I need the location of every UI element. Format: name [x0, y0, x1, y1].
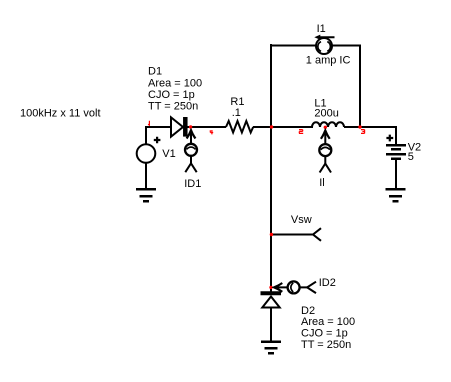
resistor R1: [226, 121, 253, 133]
junction dot at Vsw: [270, 233, 273, 236]
junction dot at L1 / Il probe: [324, 126, 327, 129]
svg-text:D2: D2: [301, 305, 315, 317]
svg-text:TT = 250n: TT = 250n: [301, 339, 351, 351]
svg-text:CJO = 1p: CJO = 1p: [301, 327, 348, 339]
ground (D2): [261, 342, 281, 354]
wire top loop left vertical (node 2 column down to D2): [270, 44, 272, 293]
wire R1 to L1 through node 2 junction: [253, 126, 313, 128]
svg-text:Area = 100: Area = 100: [148, 77, 202, 89]
node 1 (red node number): [148, 121, 149, 126]
node 4 (red node number): [210, 130, 213, 134]
svg-text:Vsw: Vsw: [291, 214, 312, 226]
wire V2 battery bottom to ground: [395, 158, 397, 190]
junction dot node 3: [358, 125, 361, 128]
svg-text:.1: .1: [232, 107, 241, 119]
svg-text:TT = 250n: TT = 250n: [148, 100, 198, 112]
inductor L1: [312, 122, 344, 127]
current probe ID1: [185, 128, 197, 173]
voltage source V1: [137, 137, 161, 163]
svg-text:Area = 100: Area = 100: [301, 316, 355, 328]
svg-text:D1: D1: [148, 66, 162, 78]
wire V1 top to diode D1 anode: [146, 127, 171, 144]
wire Vsw stub: [271, 234, 314, 236]
junction dot at D1 cathode: [189, 125, 192, 128]
wire top loop horizontal through I1: [270, 45, 360, 47]
wire V1 bottom to ground: [145, 162, 147, 190]
svg-text:Il: Il: [319, 177, 325, 189]
current source I1: [314, 35, 334, 54]
svg-text:100kHz x 11 volt: 100kHz x 11 volt: [20, 108, 101, 120]
svg-text:ID1: ID1: [184, 178, 201, 190]
ground (V1): [136, 189, 156, 201]
wire L1 to V2 corner: [344, 127, 396, 145]
diode D2: [261, 293, 282, 307]
node 3 (red node number): [361, 130, 365, 134]
svg-text:1 amp IC: 1 amp IC: [306, 55, 351, 67]
diode D1: [171, 117, 185, 137]
svg-text:200u: 200u: [314, 107, 338, 119]
svg-text:ID2: ID2: [319, 277, 336, 289]
svg-text:5: 5: [408, 151, 414, 163]
current probe Il: [319, 128, 331, 173]
svg-text:CJO = 1p: CJO = 1p: [148, 89, 195, 101]
junction dot at ID2: [269, 286, 272, 289]
wire top loop right vertical to node 3: [359, 45, 361, 128]
wire D2 anode to ground: [270, 307, 272, 342]
junction dot node 2: [270, 125, 273, 128]
tie Vsw prongs: [313, 228, 321, 241]
battery V2: [386, 135, 406, 159]
svg-text:I1: I1: [317, 23, 326, 35]
svg-text:V1: V1: [162, 148, 175, 160]
node 2 (red node number): [299, 130, 303, 134]
wire D1 cathode to R1: [187, 126, 226, 128]
current probe ID2: [271, 281, 316, 293]
ground (V2): [386, 189, 406, 201]
